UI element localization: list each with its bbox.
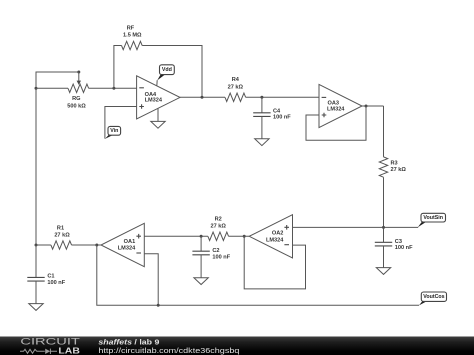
wire OA3 output	[362, 105, 384, 107]
svg-text:OA1: OA1	[124, 239, 136, 245]
wire OA1 inverting input feedback tap	[144, 254, 158, 306]
svg-text:27 kΩ: 27 kΩ	[391, 167, 407, 173]
svg-text:R4: R4	[232, 77, 240, 83]
capacitor C4 100 nF	[253, 97, 291, 139]
svg-text:LAB: LAB	[58, 347, 80, 355]
wire OA2 non-inverting input to VoutSin node	[293, 226, 419, 228]
svg-text:C1: C1	[47, 274, 54, 280]
wire OA1 output down to VoutCos rail	[97, 245, 419, 305]
svg-text:27 kΩ: 27 kΩ	[211, 224, 227, 230]
resistor R4 27 k	[225, 77, 319, 101]
svg-text:C4: C4	[273, 108, 281, 114]
wire OA2 feedback loop to inverting input	[244, 236, 305, 289]
node R4 / C4 junction	[260, 96, 263, 99]
wire wiper loop of RG	[36, 72, 79, 88]
svg-text:LM324: LM324	[118, 246, 136, 252]
wire OA4 output to R4	[180, 96, 225, 98]
svg-text:C2: C2	[212, 248, 219, 254]
op-amp OA1 LM324	[101, 223, 144, 266]
svg-text:VoutSin: VoutSin	[423, 215, 443, 221]
wire left rail x=36	[35, 88, 37, 245]
svg-text:shaffets / lab 9: shaffets / lab 9	[98, 339, 159, 346]
svg-text:C3: C3	[395, 239, 402, 245]
svg-text:OA2: OA2	[272, 231, 284, 237]
node R1 left on rail	[35, 244, 38, 247]
svg-text:100 nF: 100 nF	[47, 280, 65, 286]
svg-text:Vdd: Vdd	[162, 67, 172, 73]
capacitor C1 100 nF	[27, 245, 65, 304]
node feedback tap on VoutCos rail	[157, 304, 160, 307]
CircuitLab logo resistor squiggle	[20, 349, 45, 353]
node OA2 output	[243, 235, 246, 238]
op-amp OA2 LM324	[249, 215, 292, 258]
resistor RF 1.5 M	[114, 26, 202, 98]
wire OA3 feedback loop to non-inverting input	[306, 106, 366, 140]
footer bar	[0, 337, 474, 355]
svg-text:100 nF: 100 nF	[273, 115, 291, 121]
svg-text:R1: R1	[57, 226, 64, 232]
flag VoutSin	[418, 213, 446, 227]
resistor R3 27 k	[379, 106, 406, 227]
ground below C2	[194, 278, 208, 285]
svg-text:VoutCos: VoutCos	[423, 294, 444, 300]
svg-text:LM324: LM324	[266, 238, 284, 244]
svg-text:100 nF: 100 nF	[212, 254, 230, 260]
flag Vin	[105, 126, 121, 138]
svg-text:http://circuitlab.com/cdkte36c: http://circuitlab.com/cdkte36chgsbq	[98, 348, 239, 355]
node wiper junction	[77, 71, 80, 74]
wire OA4 non-inverting input from Vin	[105, 107, 137, 139]
capacitor C2 100 nF	[192, 236, 230, 277]
svg-text:Vin: Vin	[110, 128, 118, 134]
svg-text:RF: RF	[127, 26, 135, 32]
svg-text:LM324: LM324	[145, 98, 163, 104]
node OA3 output	[365, 105, 368, 108]
CircuitLab logo diode	[45, 349, 50, 354]
ground below C3	[376, 268, 390, 275]
resistor R2 27 k	[144, 217, 249, 241]
resistor R1 27 k	[36, 226, 101, 250]
capacitor C3 100 nF	[375, 227, 413, 267]
ground below C1	[29, 304, 43, 311]
op-amp OA3 LM324	[319, 84, 362, 127]
node OA1 output	[95, 244, 98, 247]
svg-text:100 nF: 100 nF	[395, 245, 413, 251]
ground below C4	[255, 139, 269, 146]
flag Vdd power for OA4	[157, 65, 175, 86]
node VoutSin / R3 / C3 junction	[382, 226, 385, 229]
flag VoutCos	[419, 292, 447, 305]
svg-text:500 kΩ: 500 kΩ	[67, 103, 86, 109]
ground for OA4 negative supply	[151, 108, 165, 128]
op-amp OA4 LM324	[137, 76, 180, 119]
svg-text:27 kΩ: 27 kΩ	[54, 232, 70, 238]
node OA4 output / RF feedback	[201, 96, 204, 99]
svg-text:27 kΩ: 27 kΩ	[228, 84, 244, 90]
svg-text:RG: RG	[72, 96, 80, 102]
svg-text:R3: R3	[391, 160, 398, 166]
node R2 / C2 junction	[200, 235, 203, 238]
svg-text:LM324: LM324	[327, 106, 345, 112]
svg-text:1.5 MΩ: 1.5 MΩ	[123, 32, 142, 38]
node RG left junction	[35, 87, 38, 90]
svg-text:R2: R2	[215, 217, 222, 223]
potentiometer RG 500 k	[36, 72, 137, 109]
node RF tap on OA4 inverting input	[112, 87, 115, 90]
